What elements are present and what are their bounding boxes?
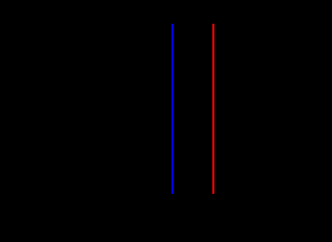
- red vertical line: [212, 24, 214, 194]
- blue vertical line: [171, 24, 173, 194]
